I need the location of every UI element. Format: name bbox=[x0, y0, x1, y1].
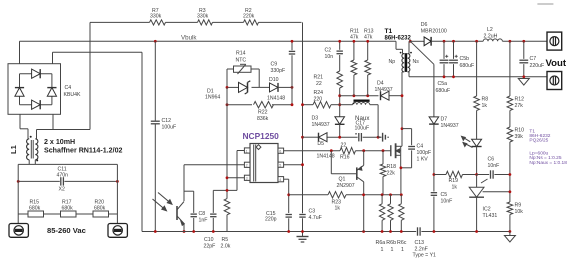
svg-text:22k: 22k bbox=[387, 171, 396, 177]
svg-text:2: 2 bbox=[246, 164, 248, 168]
svg-text:R8: R8 bbox=[482, 97, 489, 103]
svg-text:22: 22 bbox=[341, 142, 347, 148]
U1 pin 4 bbox=[278, 177, 284, 182]
svg-text:2.2nF: 2.2nF bbox=[415, 246, 428, 252]
LED opto diode bbox=[462, 136, 482, 174]
svg-text:220uF: 220uF bbox=[530, 63, 545, 69]
svg-text:1: 1 bbox=[246, 149, 248, 153]
transformer secondary Ns bbox=[408, 41, 420, 77]
label 85-260 Vac bbox=[47, 226, 86, 235]
svg-text:10k: 10k bbox=[515, 209, 524, 215]
L1 value label bbox=[44, 138, 123, 155]
svg-text:Type = Y1: Type = Y1 bbox=[413, 253, 437, 259]
svg-text:R14: R14 bbox=[236, 51, 246, 57]
capacitor C1 aux bbox=[383, 133, 389, 142]
op-amp U1 body bbox=[250, 144, 278, 183]
svg-text:R21: R21 bbox=[314, 75, 324, 81]
svg-text:680k: 680k bbox=[62, 206, 74, 212]
svg-text:PQ26/25: PQ26/25 bbox=[529, 138, 548, 144]
svg-text:680uF: 680uF bbox=[436, 88, 451, 94]
junction Vbulk C2 bbox=[338, 40, 341, 43]
wire R19 row bbox=[434, 174, 477, 176]
resistor R8 bbox=[474, 41, 488, 139]
svg-text:C2: C2 bbox=[325, 48, 332, 54]
resistor R22 bbox=[254, 102, 274, 123]
junction D4 row R13 bbox=[366, 94, 369, 97]
junction ref bbox=[509, 190, 512, 193]
wire R24 row bbox=[303, 104, 340, 106]
wire primary return top bbox=[53, 51, 143, 53]
capacitor C3 bbox=[299, 209, 321, 232]
svg-text:1N4148: 1N4148 bbox=[317, 154, 335, 160]
svg-text:Schaffner RN114-1.2/02: Schaffner RN114-1.2/02 bbox=[44, 147, 123, 155]
wire discharge row bbox=[18, 213, 117, 215]
wire pin1 loop bbox=[213, 151, 244, 191]
svg-text:Np: Np bbox=[389, 59, 396, 65]
svg-text:470n: 470n bbox=[57, 173, 69, 179]
junction ret C5b bbox=[452, 75, 455, 78]
junction rail R6a bbox=[381, 230, 384, 233]
svg-text:R11: R11 bbox=[350, 28, 359, 34]
svg-text:MBR20100: MBR20100 bbox=[421, 29, 447, 35]
junction fb node bbox=[226, 189, 229, 192]
terminal AC right bbox=[108, 224, 127, 238]
svg-text:2.0k: 2.0k bbox=[221, 244, 231, 250]
junction out C5a bbox=[443, 40, 446, 43]
wire R22 row bbox=[227, 104, 292, 106]
svg-text:R6c: R6c bbox=[397, 240, 407, 246]
capacitor C5sec bbox=[431, 192, 453, 232]
junction rail R6b bbox=[389, 230, 392, 233]
svg-text:39k: 39k bbox=[515, 134, 524, 140]
junction rail dots bbox=[154, 230, 365, 233]
junction D1 left bbox=[226, 86, 229, 89]
node Vbulk label bbox=[181, 34, 197, 41]
wire return rail bbox=[409, 76, 547, 78]
svg-text:47k: 47k bbox=[350, 35, 359, 41]
capacitor C12 bbox=[151, 118, 176, 131]
svg-text:Q1: Q1 bbox=[339, 177, 346, 183]
svg-text:680uF: 680uF bbox=[460, 63, 475, 69]
svg-text:86H-6232: 86H-6232 bbox=[385, 35, 412, 41]
capacitor C7 bbox=[519, 41, 544, 77]
junction Naux row bbox=[338, 103, 341, 106]
svg-text:22: 22 bbox=[316, 81, 322, 87]
svg-text:1: 1 bbox=[391, 247, 394, 253]
opto light arrows bbox=[153, 193, 173, 211]
resistor R6c bbox=[397, 195, 407, 253]
junction sense Q1 bbox=[362, 193, 365, 196]
svg-text:TL431: TL431 bbox=[483, 213, 498, 219]
svg-text:Vout: Vout bbox=[546, 58, 567, 69]
junction pin3 node bbox=[226, 176, 229, 179]
resistor R24 bbox=[313, 90, 331, 108]
junction drain D4 bbox=[401, 94, 404, 97]
svg-text:10nF: 10nF bbox=[488, 163, 500, 169]
bridge rectifier C4 box bbox=[8, 64, 61, 115]
svg-text:4: 4 bbox=[279, 178, 281, 182]
junction sec top bbox=[409, 40, 412, 43]
svg-text:680k: 680k bbox=[29, 206, 41, 212]
resistor R16 bbox=[340, 142, 356, 160]
svg-text:10n: 10n bbox=[325, 54, 334, 60]
capacitor C5b bbox=[449, 41, 474, 77]
IC U1 NCP1250 label bbox=[243, 131, 280, 141]
junction sense R6b bbox=[389, 193, 392, 196]
resistor R13 bbox=[364, 28, 374, 95]
wire choke right to startup column bbox=[37, 129, 91, 131]
junction clamp D4row bbox=[338, 94, 341, 97]
wire sec top to D6 bbox=[409, 40, 424, 42]
diode D5 bbox=[317, 133, 335, 160]
svg-text:C5b: C5b bbox=[460, 56, 470, 62]
junction D10-C9 bbox=[291, 86, 294, 89]
capacitor C2 bbox=[325, 41, 343, 71]
label Vout bbox=[546, 58, 567, 69]
wire choke right top lead bbox=[36, 130, 38, 139]
svg-text:C10: C10 bbox=[204, 237, 214, 243]
resistor R7 bbox=[150, 8, 166, 25]
zener D1 bbox=[205, 81, 250, 101]
ground secondary bottom bbox=[504, 232, 515, 243]
svg-text:330pF: 330pF bbox=[271, 68, 286, 74]
svg-text:L2: L2 bbox=[487, 27, 493, 33]
label T1 info bbox=[529, 128, 567, 165]
junction CS node bbox=[287, 193, 290, 196]
bridge diode top bbox=[32, 69, 41, 78]
resistor R21 bbox=[314, 71, 343, 117]
wire Vbulk rail bbox=[20, 41, 403, 49]
wire C6 row bbox=[477, 174, 510, 176]
wire bridge top-right bbox=[52, 52, 54, 63]
svg-text:C3: C3 bbox=[309, 209, 316, 215]
capacitor C13 bbox=[413, 227, 437, 258]
wire D4 row bbox=[340, 95, 402, 97]
L1 label bbox=[9, 145, 18, 154]
svg-text:2 x 10mH: 2 x 10mH bbox=[44, 138, 75, 146]
svg-text:C9: C9 bbox=[271, 62, 278, 68]
svg-text:220p: 220p bbox=[265, 217, 277, 223]
wire startup/Vcc column x302.5 bbox=[302, 22, 304, 213]
wire snubber branch bbox=[402, 129, 412, 146]
diode D4 bbox=[375, 81, 393, 101]
junction rail R6c bbox=[400, 230, 403, 233]
junction out C7 bbox=[522, 40, 525, 43]
junction D3 bottom bbox=[338, 136, 341, 139]
U1 pin 6 bbox=[278, 148, 284, 153]
resistor R2 bbox=[243, 8, 259, 25]
junction rail R9 bbox=[509, 230, 512, 233]
resistor R10 bbox=[507, 127, 524, 202]
U1 pin 2 bbox=[244, 162, 250, 167]
junction ret C7 bbox=[522, 75, 525, 78]
TL431 IC2 bbox=[469, 175, 510, 232]
wire bridge bottom-left lead bbox=[20, 114, 28, 139]
svg-text:1k: 1k bbox=[482, 103, 488, 109]
svg-text:680k: 680k bbox=[94, 206, 106, 212]
svg-text:KBU4K: KBU4K bbox=[64, 92, 82, 98]
junction R24 left bbox=[301, 103, 304, 106]
wire primary ground column x142 bbox=[141, 52, 143, 231]
resistor R17 bbox=[61, 200, 77, 218]
terminal AC left bbox=[9, 224, 28, 238]
svg-text:NTC: NTC bbox=[236, 58, 247, 64]
svg-text:C4: C4 bbox=[65, 85, 72, 91]
junction out C5b bbox=[452, 40, 455, 43]
diode D3 bbox=[312, 116, 345, 138]
diode D7 bbox=[429, 117, 459, 192]
wire NTC loop bbox=[227, 69, 259, 87]
svg-text:D3: D3 bbox=[312, 116, 319, 122]
capacitor C15 bbox=[265, 211, 292, 232]
wire source column bbox=[400, 155, 402, 195]
svg-text:D10: D10 bbox=[269, 77, 279, 83]
resistor R18 bbox=[380, 151, 396, 195]
svg-text:C5: C5 bbox=[441, 192, 448, 198]
transistor M1 mosfet bbox=[391, 141, 402, 158]
capacitor C8 bbox=[184, 191, 207, 231]
junction Q1 emitter bbox=[362, 149, 365, 152]
svg-text:22pF: 22pF bbox=[204, 244, 216, 250]
wire D10 to C9 node bbox=[278, 86, 292, 88]
svg-text:1 KV: 1 KV bbox=[417, 157, 429, 163]
svg-text:C6: C6 bbox=[488, 157, 495, 163]
junction rail TL431 bbox=[475, 230, 478, 233]
junction R18 top bbox=[382, 149, 385, 152]
svg-text:R24: R24 bbox=[314, 90, 324, 96]
junction Vbulk-C12 bbox=[154, 40, 157, 43]
svg-text:220k: 220k bbox=[243, 13, 255, 19]
wire C12 column bbox=[154, 41, 156, 231]
resistor R12 bbox=[507, 41, 524, 127]
wire out rail bbox=[431, 40, 547, 42]
svg-text:100pF: 100pF bbox=[417, 150, 432, 156]
bridge inner loop bbox=[20, 74, 52, 105]
svg-text:4.7uF: 4.7uF bbox=[309, 215, 322, 221]
L1 core bbox=[31, 140, 33, 159]
wire AC left column bbox=[17, 164, 19, 223]
wire DRV row bbox=[284, 150, 391, 152]
resistor R5 bbox=[221, 199, 231, 250]
U1 pin 3 bbox=[244, 175, 250, 180]
junction rail D7col bbox=[433, 230, 436, 233]
inductor L2 bbox=[483, 27, 502, 41]
transformer primary Np bbox=[389, 49, 405, 72]
svg-text:220: 220 bbox=[314, 97, 323, 103]
resistor R15 bbox=[28, 200, 44, 218]
U1 pin 1 bbox=[244, 148, 250, 153]
capacitor C10 bbox=[204, 190, 217, 249]
junction rail2 right bbox=[116, 180, 119, 183]
wire AC rail2 with C11 gap bbox=[18, 180, 117, 182]
terminal Vout+ bbox=[547, 32, 562, 50]
junction opto emitter bbox=[183, 230, 186, 233]
svg-text:C5a: C5a bbox=[438, 81, 448, 87]
wire Vcc row bbox=[303, 136, 382, 138]
resistor R6a bbox=[376, 195, 386, 253]
svg-text:R19: R19 bbox=[449, 178, 459, 184]
U1 pin 5 bbox=[278, 162, 284, 167]
svg-text:R6a: R6a bbox=[376, 240, 386, 246]
junction sense R6a bbox=[381, 193, 384, 196]
svg-text:R13: R13 bbox=[364, 28, 374, 34]
junction Naux drop bbox=[377, 136, 380, 139]
junction C9-Vbulk bbox=[291, 40, 294, 43]
inductor Naux winding bbox=[340, 101, 378, 138]
junction Vcc row start bbox=[301, 136, 304, 139]
resistor R20 bbox=[93, 200, 109, 218]
svg-text:R9: R9 bbox=[515, 203, 522, 209]
wire pin2 to opto bbox=[184, 164, 244, 166]
thermistor R14 NTC bbox=[234, 51, 252, 75]
svg-text:2.2uH: 2.2uH bbox=[484, 34, 498, 40]
transformer T1 label bbox=[385, 28, 412, 42]
svg-text:R6b: R6b bbox=[386, 240, 396, 246]
capacitor C6 bbox=[488, 157, 500, 179]
svg-text:C13: C13 bbox=[415, 240, 425, 246]
wire choke bottom leads bbox=[29, 160, 35, 165]
wire AC right column bbox=[116, 164, 118, 223]
wire top startup rail segments bbox=[90, 21, 302, 23]
svg-text:6: 6 bbox=[279, 150, 281, 154]
capacitor C17 bbox=[355, 115, 371, 141]
junction R22 right bbox=[291, 103, 294, 106]
transistor Q1 bbox=[331, 151, 363, 232]
junction D7 R19 bbox=[433, 173, 436, 176]
resistor R9 bbox=[507, 202, 523, 232]
transformer T1 core bbox=[405, 53, 408, 72]
T1 phase dots bbox=[400, 52, 412, 54]
resistor R3 bbox=[197, 8, 213, 25]
junction Vbulk R11 bbox=[353, 40, 356, 43]
svg-text:1: 1 bbox=[401, 247, 404, 253]
svg-text:1N4937: 1N4937 bbox=[441, 123, 459, 129]
L1 phase dots bbox=[30, 136, 39, 162]
svg-text:NCP1250: NCP1250 bbox=[243, 131, 280, 141]
svg-text:47k: 47k bbox=[364, 35, 373, 41]
junction C6 right bbox=[509, 173, 512, 176]
junction Vcc pin bbox=[301, 163, 304, 166]
wire bridge top-left to Vbulk bbox=[19, 41, 21, 63]
svg-text:1k: 1k bbox=[452, 185, 458, 191]
svg-text:D4: D4 bbox=[377, 81, 384, 87]
junction sense R6c bbox=[400, 193, 403, 196]
svg-text:T1: T1 bbox=[385, 28, 393, 35]
wire OVP diagonal bbox=[410, 41, 434, 117]
bridge diode left bbox=[15, 88, 24, 97]
svg-text:C4: C4 bbox=[417, 144, 424, 150]
svg-text:Vbulk: Vbulk bbox=[181, 34, 197, 41]
capacitor C9 bbox=[271, 41, 296, 104]
junction ret C5a bbox=[443, 75, 446, 78]
transistor opto bbox=[177, 165, 184, 232]
junction drain branch bbox=[401, 127, 404, 130]
wire pin5 Vcc bbox=[284, 164, 303, 166]
diode D10 bbox=[267, 77, 285, 102]
wire sense row bbox=[289, 194, 402, 196]
svg-text:100uF: 100uF bbox=[162, 125, 177, 131]
wire bottom rail left bbox=[142, 231, 416, 233]
svg-text:R16: R16 bbox=[340, 155, 350, 161]
svg-text:2N2907: 2N2907 bbox=[337, 183, 355, 189]
svg-text:Np:Naux = 1:0.18: Np:Naux = 1:0.18 bbox=[529, 160, 567, 166]
svg-text:1N4937: 1N4937 bbox=[312, 122, 330, 128]
svg-text:C7: C7 bbox=[530, 56, 537, 62]
svg-text:836k: 836k bbox=[257, 116, 269, 122]
svg-text:1: 1 bbox=[381, 247, 384, 253]
wire startup column x90 bbox=[89, 22, 91, 129]
svg-text:C8: C8 bbox=[199, 211, 206, 217]
junction Vbulk R13 bbox=[366, 40, 369, 43]
resistor R19 bbox=[446, 171, 463, 190]
junction R22 left bbox=[226, 103, 229, 106]
svg-text:1nF: 1nF bbox=[199, 218, 208, 224]
wire NTC column down to FB bbox=[226, 87, 228, 198]
resistor R23 bbox=[328, 192, 346, 212]
wire drain column bbox=[401, 72, 403, 141]
svg-text:27k: 27k bbox=[515, 103, 524, 109]
wire pin4 CS bbox=[284, 179, 289, 213]
capacitor Csnub C4 bbox=[402, 144, 432, 168]
terminal Vout- bbox=[547, 72, 562, 90]
wire D1 row bbox=[227, 86, 270, 88]
svg-text:1N964: 1N964 bbox=[205, 95, 220, 101]
junction D4 row R11 bbox=[353, 94, 356, 97]
svg-text:D7: D7 bbox=[441, 117, 448, 123]
junction rail2 left bbox=[17, 180, 20, 183]
svg-text:85-260 Vac: 85-260 Vac bbox=[47, 226, 86, 235]
wire pin3 bbox=[227, 177, 244, 179]
svg-text:R22: R22 bbox=[258, 110, 268, 116]
svg-text:R18: R18 bbox=[387, 164, 397, 170]
junction source node bbox=[400, 166, 403, 169]
wire AC rail1 bbox=[18, 163, 117, 165]
capacitor C11 X2 bbox=[57, 167, 69, 193]
capacitor C5a bbox=[436, 41, 451, 94]
decorative top line bbox=[537, 3, 553, 5]
wire bridge bottom-right lead bbox=[52, 114, 54, 129]
bridge label bbox=[64, 85, 82, 98]
svg-text:R12: R12 bbox=[515, 97, 525, 103]
svg-text:R5: R5 bbox=[222, 237, 229, 243]
svg-text:C12: C12 bbox=[162, 118, 172, 124]
svg-text:D6: D6 bbox=[421, 22, 428, 28]
svg-text:1N4148: 1N4148 bbox=[267, 96, 285, 102]
bridge diode bottom bbox=[32, 100, 41, 109]
bridge diode right bbox=[47, 88, 56, 97]
svg-text:5: 5 bbox=[279, 164, 281, 168]
wire bottom rail right bbox=[421, 231, 511, 233]
junction out R8 bbox=[475, 40, 478, 43]
svg-text:3: 3 bbox=[246, 177, 248, 181]
svg-text:330k: 330k bbox=[197, 13, 209, 19]
wire Vcc row tail bbox=[378, 136, 381, 138]
svg-text:IC2: IC2 bbox=[483, 207, 491, 213]
diode D6 bbox=[421, 22, 447, 46]
ground primary bbox=[297, 232, 309, 243]
junction LED TL431 bbox=[475, 173, 478, 176]
junction out R12 bbox=[509, 40, 512, 43]
resistor R6b bbox=[386, 195, 396, 253]
ground secondary top bbox=[518, 79, 529, 86]
svg-text:Ns: Ns bbox=[413, 59, 420, 65]
svg-text:1k: 1k bbox=[335, 206, 341, 212]
svg-text:10nF: 10nF bbox=[441, 199, 453, 205]
svg-text:X2: X2 bbox=[59, 187, 65, 193]
resistor R11 bbox=[350, 28, 359, 95]
svg-text:R10: R10 bbox=[515, 128, 525, 134]
junction Q1 base tap bbox=[330, 149, 333, 152]
